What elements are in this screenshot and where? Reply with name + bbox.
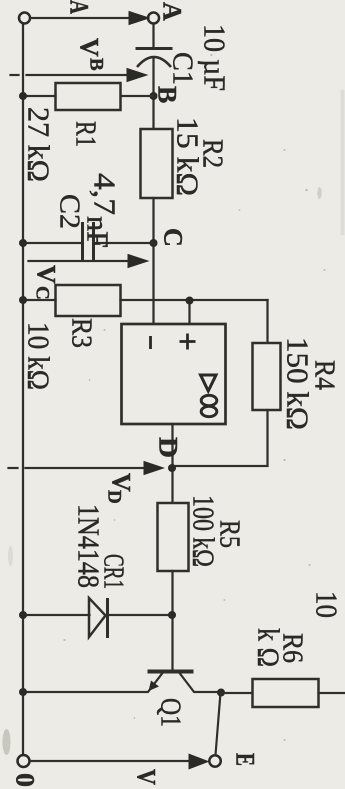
resistor R6 top wire to edge <box>319 692 345 694</box>
scan speckles <box>63 54 325 741</box>
vA voltage arrow wire <box>31 17 133 19</box>
svg-text:V: V <box>75 38 104 57</box>
svg-text:A: A <box>65 0 94 14</box>
noninverting input stub wire <box>188 300 190 324</box>
capacitor C2 bottom wire <box>23 242 83 244</box>
capacitor C2 bottom plate <box>81 222 84 260</box>
svg-text:10: 10 <box>310 591 345 618</box>
junction dot plus input <box>186 297 194 305</box>
transistor Q1 collector lead <box>180 673 222 692</box>
svg-text:10 kΩ: 10 kΩ <box>22 322 57 390</box>
VD voltage arrow wire <box>26 467 145 469</box>
svg-text:D: D <box>104 490 125 504</box>
resistor R1 branch top wire <box>121 95 154 97</box>
svg-text:1N4148: 1N4148 <box>72 504 107 588</box>
svg-text:B: B <box>86 58 107 71</box>
op-amp U1 box <box>122 324 226 424</box>
svg-text:150 kΩ: 150 kΩ <box>281 337 316 430</box>
svg-text:D: D <box>154 437 183 458</box>
feedback wire to R4 <box>266 300 268 343</box>
svg-text:C1: C1 <box>167 52 199 85</box>
node D dot <box>168 464 176 472</box>
wire R2 to op-amp <box>152 198 154 324</box>
node C dot <box>150 239 158 247</box>
VC voltage arrow wire <box>29 260 128 262</box>
resistor R1 bottom wire <box>23 95 56 97</box>
svg-text:R1: R1 <box>70 121 102 147</box>
diode junction dot top <box>168 611 176 619</box>
resistor R3 <box>56 285 121 316</box>
transistor Q1 emitter lead <box>23 673 163 692</box>
svg-text:0: 0 <box>11 773 40 787</box>
resistor R6 <box>253 679 319 707</box>
svg-text:15 kΩ: 15 kΩ <box>171 117 206 196</box>
top edge streak <box>341 90 345 235</box>
resistor R6 bottom wire <box>222 692 253 694</box>
diode CR1 bottom wire <box>23 614 90 616</box>
svg-text:C: C <box>159 228 188 247</box>
op-amp plus sign <box>180 334 196 350</box>
svg-text:4,7: 4,7 <box>88 173 123 215</box>
op-amp gain triangle symbol <box>201 375 217 391</box>
svg-text:Q1: Q1 <box>155 698 187 727</box>
VB dash below rail <box>11 74 19 76</box>
op-amp infinity symbol lobe 2 <box>201 406 217 416</box>
rail junction dot at emitter <box>19 688 27 696</box>
rail junction dot at R3 <box>19 296 27 304</box>
diode CR1 top wire <box>109 614 173 616</box>
transistor Q1 base bar <box>148 670 194 674</box>
svg-text:k Ω: k Ω <box>252 628 287 667</box>
VD dash below rail <box>9 467 18 469</box>
capacitor C1 curved plate <box>137 57 171 67</box>
scan smudge faint mid <box>8 546 13 566</box>
rail junction dot at C2 <box>19 239 27 247</box>
svg-text:27 kΩ: 27 kΩ <box>22 107 57 182</box>
capacitor C2 top wire <box>94 242 154 244</box>
diode CR1 triangle <box>89 598 106 637</box>
resistor R2 <box>141 129 173 198</box>
R3 bottom wire <box>23 299 56 301</box>
node B dot <box>150 92 158 100</box>
R3 top wire up to feedback row <box>121 299 268 301</box>
terminal 0 (lower-left) circle <box>19 13 30 24</box>
resistor R5 <box>158 503 189 571</box>
svg-text:C: C <box>32 286 53 300</box>
svg-text:A: A <box>158 2 187 21</box>
main wire A to C1 <box>152 24 154 49</box>
collector node dot <box>217 689 225 697</box>
diode CR1 cathode bar <box>106 598 109 638</box>
capacitor C2 top plate <box>92 222 95 260</box>
mid faint mark <box>317 187 321 199</box>
wire C1 to node B <box>152 58 154 129</box>
scan smudge near 0 terminal <box>3 729 11 755</box>
terminal A circle <box>148 13 159 24</box>
op-amp output wire <box>171 424 173 503</box>
feedback wire R4 to corner <box>173 410 268 466</box>
svg-text:10 µF: 10 µF <box>198 24 233 91</box>
terminal 0 (lower-right) circle <box>18 755 30 767</box>
VC arrowhead <box>128 254 150 268</box>
VD arrowhead <box>144 461 166 475</box>
vE arrowhead <box>189 754 210 770</box>
svg-text:V: V <box>132 769 161 785</box>
svg-text:nF: nF <box>81 216 116 248</box>
svg-text:100 kΩ: 100 kΩ <box>187 495 222 567</box>
vE voltage arrow wire <box>31 760 191 762</box>
wire R5 to transistor base <box>171 571 173 670</box>
vA arrowhead <box>129 11 151 25</box>
VB arrowhead <box>127 68 149 82</box>
transistor Q1 emitter arrow <box>149 681 160 692</box>
capacitor C1 straight plate <box>136 47 173 50</box>
resistor R1 <box>56 83 121 110</box>
op-amp infinity symbol lobe 1 <box>201 395 217 405</box>
op-amp minus sign <box>149 336 152 349</box>
bottom rail wire <box>22 24 24 755</box>
rail junction dot at R1 <box>19 92 27 100</box>
VB voltage arrow wire <box>27 74 127 76</box>
svg-text:B: B <box>153 86 182 103</box>
resistor R4 <box>253 343 281 410</box>
svg-text:V: V <box>32 265 61 284</box>
wire collector to terminal E <box>216 693 221 755</box>
svg-text:E: E <box>231 753 260 766</box>
svg-text:R3: R3 <box>66 318 98 348</box>
rail junction dot at CR1 <box>19 611 27 619</box>
terminal E circle <box>209 755 220 766</box>
